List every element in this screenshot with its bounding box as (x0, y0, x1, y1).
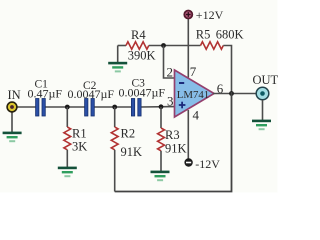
ground (under IN) (3, 132, 22, 143)
op-amp U1 LM741 (175, 70, 215, 117)
wire: R4 to R5 (through pin-2 node, crossing +12V wire) (149, 45, 201, 47)
capacitor C3 (131, 99, 141, 117)
capacitor C1 (36, 99, 46, 117)
wire: node C down to R3 (160, 107, 162, 128)
svg-text:2: 2 (167, 65, 174, 80)
plus input mark (179, 102, 186, 109)
ground (at R4) (108, 62, 127, 73)
wire: R5 right lead to output branch (223, 46, 231, 93)
svg-text:R5: R5 (196, 28, 211, 42)
svg-text:390K: 390K (128, 49, 156, 63)
svg-text:0.0047µF: 0.0047µF (119, 86, 166, 100)
IN terminal (7, 102, 17, 112)
wire: IN to C1 (17, 106, 36, 108)
svg-text:7: 7 (190, 64, 197, 79)
wire: +12V down to pin 7 (187, 18, 189, 78)
svg-text:680K: 680K (216, 28, 244, 42)
node at output feedback (229, 91, 234, 96)
svg-text:91K: 91K (121, 145, 143, 159)
wire: pin 4 down to -12V (187, 110, 189, 159)
svg-text:R3: R3 (165, 128, 180, 142)
wire: R4 left corner down to ground (117, 46, 119, 63)
minus input mark (179, 82, 184, 84)
wire: OUT down to ground (262, 100, 264, 120)
wire: node A down to R1 (66, 107, 68, 127)
node A (65, 105, 70, 110)
wire: node B down to R2 (114, 107, 116, 127)
wire: C3 to op-amp pin 3 (through node C) (141, 106, 175, 108)
-12V terminal (184, 158, 192, 166)
svg-text:+12V: +12V (196, 8, 224, 22)
wire: C1 to C2 (through node A) (45, 106, 85, 108)
wire: pin 6 output to OUT terminal (213, 93, 257, 95)
wire: C2 to C3 (through node B) (95, 106, 133, 108)
ground (under OUT) (252, 120, 271, 131)
wire: R2 down to bottom feedback rail (114, 150, 116, 192)
resistor R4 (126, 42, 149, 49)
svg-text:91K: 91K (165, 142, 187, 156)
ground (under R1) (58, 167, 77, 178)
svg-text:OUT: OUT (253, 73, 279, 87)
svg-text:4: 4 (193, 108, 200, 123)
node at pin 2 feedback (161, 43, 166, 48)
wire: feedback bottom rail (115, 92, 232, 192)
node C (159, 104, 164, 109)
wire: R3 to ground (160, 151, 162, 171)
wire: node down and into pin 2 (164, 46, 176, 79)
svg-text:IN: IN (8, 88, 21, 102)
resistor R3 (158, 128, 165, 151)
svg-text:0.47µF: 0.47µF (28, 87, 63, 101)
wire: R1 to ground (66, 150, 68, 167)
svg-text:LM741: LM741 (177, 89, 209, 101)
svg-text:-12V: -12V (195, 157, 220, 171)
resistor R1 (64, 127, 71, 150)
OUT terminal (256, 87, 269, 100)
svg-text:0.0047µF: 0.0047µF (68, 87, 115, 101)
ground (under R3) (151, 171, 170, 182)
svg-text:R2: R2 (121, 127, 136, 141)
svg-text:R4: R4 (131, 28, 146, 42)
wire: R4 left lead (118, 45, 126, 47)
+12V terminal (184, 11, 192, 19)
svg-text:3K: 3K (72, 140, 87, 154)
resistor R5 (201, 42, 224, 49)
capacitor C2 (85, 99, 95, 117)
resistor R2 (111, 127, 118, 150)
wire: IN terminal down to ground (11, 112, 13, 132)
svg-text:R1: R1 (72, 127, 87, 141)
svg-text:3: 3 (167, 94, 174, 109)
node B (112, 105, 117, 110)
